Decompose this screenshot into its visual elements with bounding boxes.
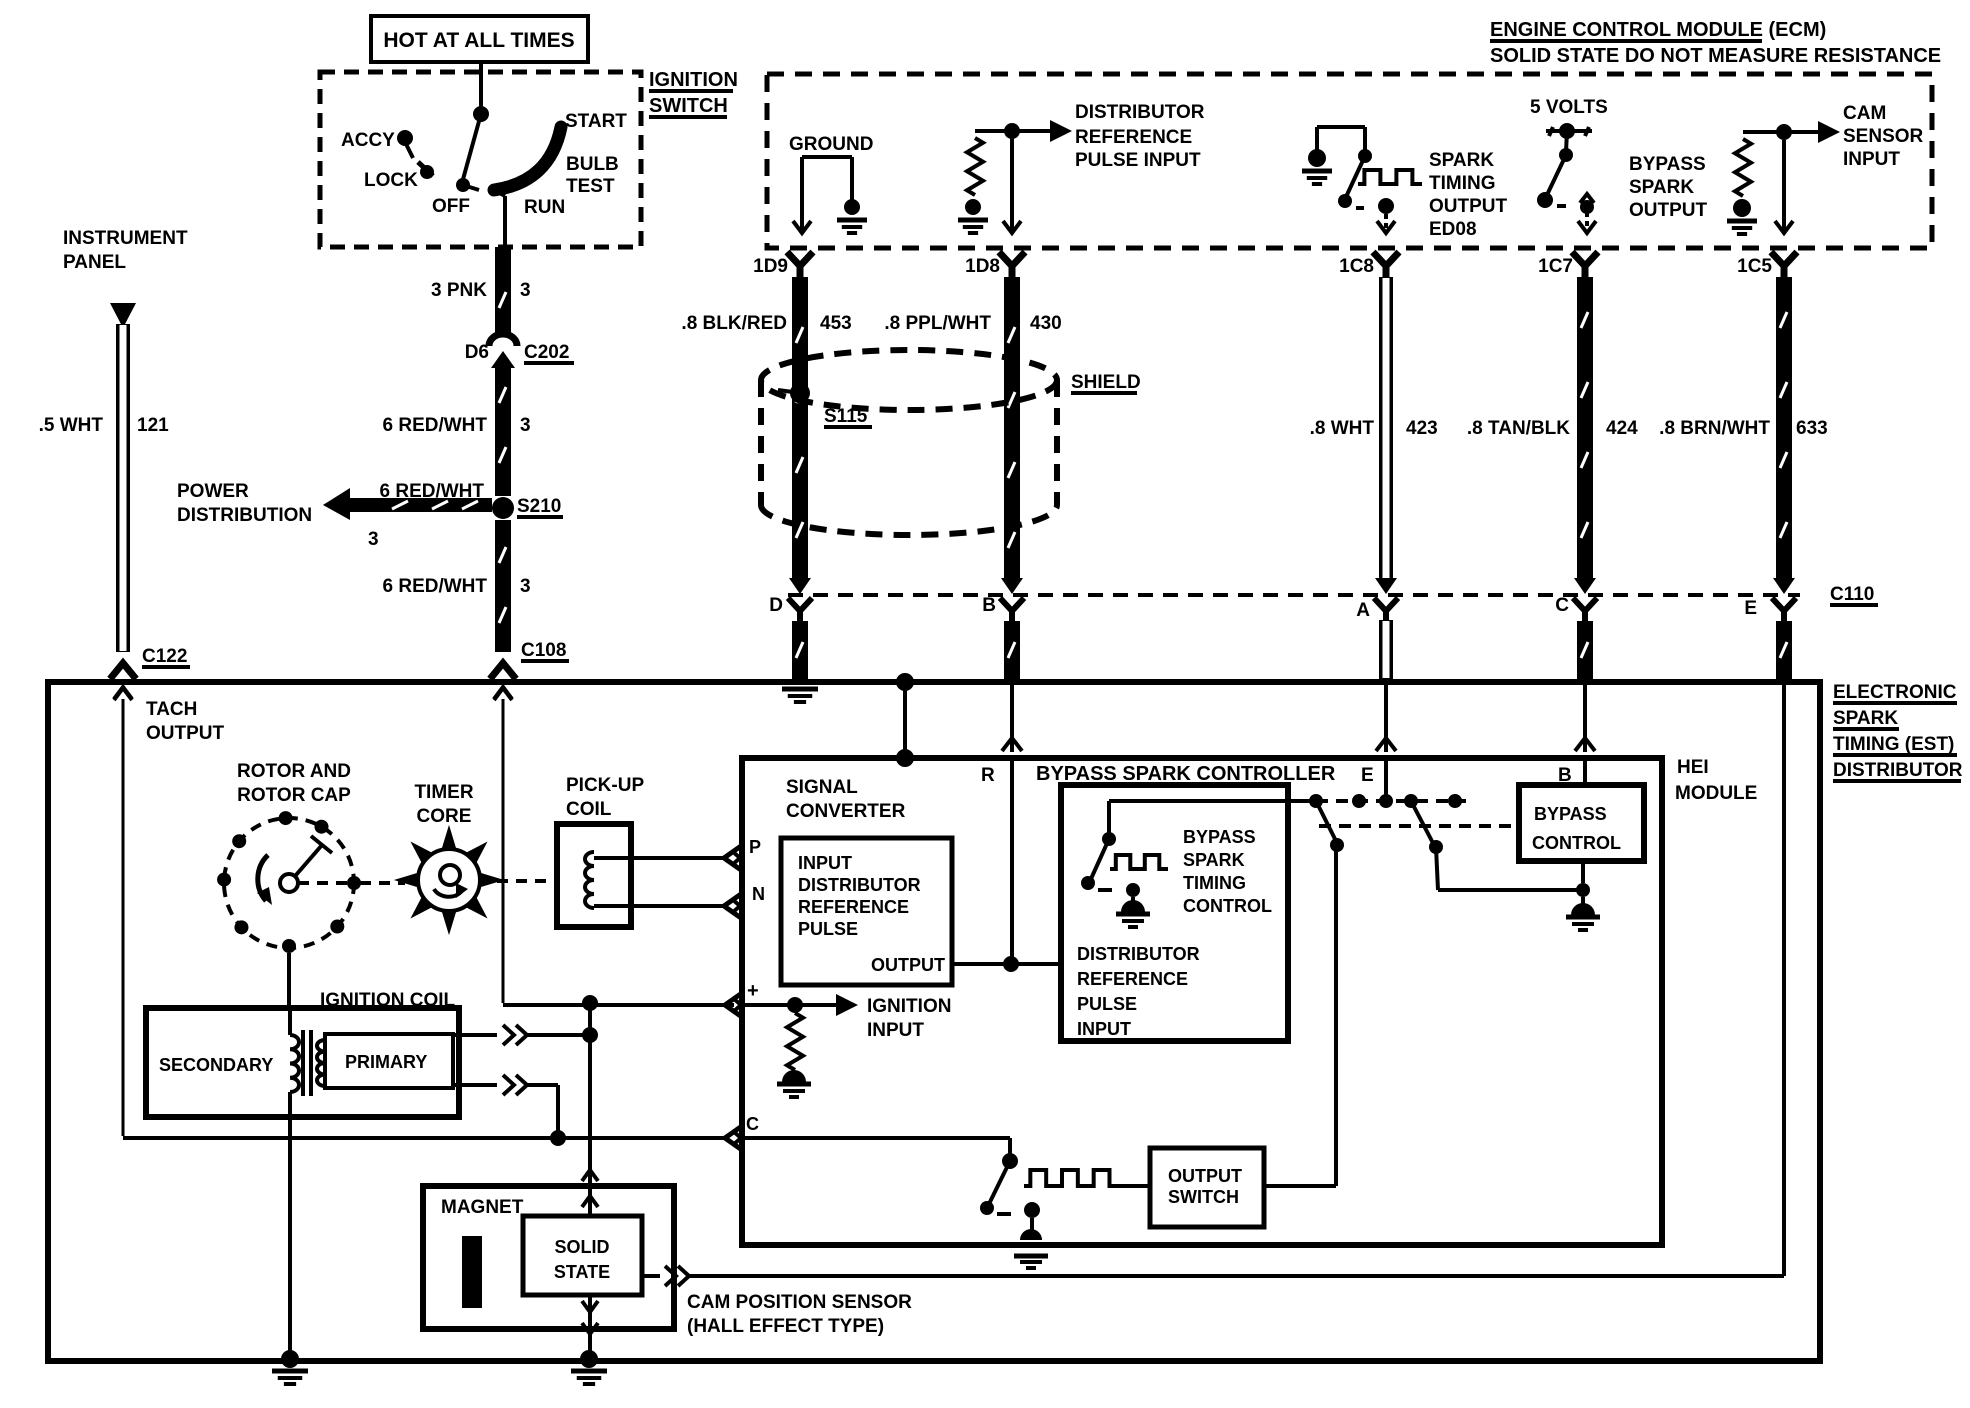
svg-text:6 RED/WHT: 6 RED/WHT xyxy=(383,576,488,597)
svg-text:PULSE: PULSE xyxy=(1077,994,1137,1014)
svg-text:SPARK: SPARK xyxy=(1429,150,1494,171)
svg-text:BYPASS SPARK CONTROLLER: BYPASS SPARK CONTROLLER xyxy=(1036,763,1336,785)
svg-text:INPUT: INPUT xyxy=(1077,1019,1131,1039)
svg-text:.8 WHT: .8 WHT xyxy=(1310,418,1375,439)
svg-text:STATE: STATE xyxy=(554,1262,610,1282)
svg-text:OUTPUT: OUTPUT xyxy=(1429,196,1508,217)
svg-text:ROTOR CAP: ROTOR CAP xyxy=(237,785,351,806)
svg-text:TACH: TACH xyxy=(146,699,197,720)
svg-text:SWITCH: SWITCH xyxy=(649,95,728,117)
svg-text:REFERENCE: REFERENCE xyxy=(798,897,909,917)
svg-text:INPUT: INPUT xyxy=(867,1020,924,1041)
svg-text:GROUND: GROUND xyxy=(789,134,873,155)
svg-text:121: 121 xyxy=(137,415,169,436)
svg-text:430: 430 xyxy=(1030,313,1062,334)
svg-text:453: 453 xyxy=(820,313,852,334)
svg-text:CONTROL: CONTROL xyxy=(1183,896,1272,916)
svg-text:LOCK: LOCK xyxy=(364,170,418,191)
svg-text:OUTPUT: OUTPUT xyxy=(1168,1166,1242,1186)
svg-text:SENSOR: SENSOR xyxy=(1843,126,1924,147)
svg-text:S210: S210 xyxy=(517,496,561,517)
svg-text:IGNITION: IGNITION xyxy=(867,996,951,1017)
svg-text:.8 BLK/RED: .8 BLK/RED xyxy=(681,313,787,334)
svg-text:SHIELD: SHIELD xyxy=(1071,372,1141,393)
svg-text:424: 424 xyxy=(1606,418,1638,439)
svg-text:DISTRIBUTION: DISTRIBUTION xyxy=(177,505,312,526)
svg-text:TIMING: TIMING xyxy=(1183,873,1246,893)
svg-text:3 PNK: 3 PNK xyxy=(431,280,487,301)
svg-text:ACCY: ACCY xyxy=(341,130,395,151)
svg-text:MAGNET: MAGNET xyxy=(441,1197,524,1218)
svg-text:ED08: ED08 xyxy=(1429,219,1477,240)
svg-text:C110: C110 xyxy=(1830,584,1874,605)
svg-text:COIL: COIL xyxy=(566,799,612,820)
svg-text:BULB: BULB xyxy=(566,154,619,175)
svg-text:OUTPUT: OUTPUT xyxy=(871,955,945,975)
svg-text:(HALL EFFECT TYPE): (HALL EFFECT TYPE) xyxy=(687,1316,884,1337)
svg-text:D6: D6 xyxy=(465,342,489,363)
svg-text:3: 3 xyxy=(520,576,531,597)
svg-text:REFERENCE: REFERENCE xyxy=(1077,969,1188,989)
svg-text:PRIMARY: PRIMARY xyxy=(345,1052,427,1072)
svg-text:6 RED/WHT: 6 RED/WHT xyxy=(380,481,485,502)
svg-text:SPARK: SPARK xyxy=(1183,850,1245,870)
svg-text:3: 3 xyxy=(368,529,379,550)
svg-text:3: 3 xyxy=(520,415,531,436)
svg-text:INPUT: INPUT xyxy=(1843,149,1900,170)
svg-text:CAM: CAM xyxy=(1843,103,1886,124)
svg-text:1C7: 1C7 xyxy=(1538,256,1573,277)
svg-text:CORE: CORE xyxy=(417,806,472,827)
svg-text:6 RED/WHT: 6 RED/WHT xyxy=(383,415,488,436)
svg-text:E: E xyxy=(1744,598,1757,619)
svg-text:B: B xyxy=(982,595,996,616)
svg-text:SOLID: SOLID xyxy=(554,1237,609,1257)
svg-text:CAM POSITION SENSOR: CAM POSITION SENSOR xyxy=(687,1292,912,1313)
svg-text:DISTRIBUTOR: DISTRIBUTOR xyxy=(798,875,921,895)
svg-text:OUTPUT: OUTPUT xyxy=(1629,200,1708,221)
svg-text:C202: C202 xyxy=(524,342,569,363)
svg-text:+: + xyxy=(747,980,759,1002)
svg-text:OUTPUT: OUTPUT xyxy=(146,723,225,744)
svg-text:1D9: 1D9 xyxy=(753,256,788,277)
svg-text:DISTRIBUTOR: DISTRIBUTOR xyxy=(1077,944,1200,964)
svg-text:BYPASS: BYPASS xyxy=(1183,827,1256,847)
svg-text:N: N xyxy=(752,884,765,904)
svg-text:423: 423 xyxy=(1406,418,1438,439)
svg-text:CONTROL: CONTROL xyxy=(1532,833,1621,853)
svg-text:SECONDARY: SECONDARY xyxy=(159,1055,273,1075)
svg-text:P: P xyxy=(749,837,761,857)
svg-text:.8 BRN/WHT: .8 BRN/WHT xyxy=(1659,418,1770,439)
svg-text:START: START xyxy=(565,111,627,132)
svg-text:S115: S115 xyxy=(824,406,868,427)
svg-text:IGNITION: IGNITION xyxy=(649,69,738,91)
svg-text:SIGNAL: SIGNAL xyxy=(786,777,858,798)
svg-text:OFF: OFF xyxy=(432,196,470,217)
svg-text:TIMER: TIMER xyxy=(414,782,473,803)
svg-text:633: 633 xyxy=(1796,418,1828,439)
svg-text:E: E xyxy=(1361,765,1374,786)
svg-text:.5 WHT: .5 WHT xyxy=(39,415,104,436)
svg-text:CONVERTER: CONVERTER xyxy=(786,801,906,822)
svg-text:1D8: 1D8 xyxy=(965,256,1000,277)
svg-text:R: R xyxy=(981,765,995,786)
svg-text:PANEL: PANEL xyxy=(63,252,126,273)
svg-text:ENGINE CONTROL MODULE (ECM): ENGINE CONTROL MODULE (ECM) xyxy=(1490,19,1826,41)
svg-text:.8 TAN/BLK: .8 TAN/BLK xyxy=(1467,418,1570,439)
svg-text:1C5: 1C5 xyxy=(1737,256,1772,277)
svg-text:SOLID STATE DO NOT MEASURE RES: SOLID STATE DO NOT MEASURE RESISTANCE xyxy=(1490,45,1941,67)
svg-text:C: C xyxy=(746,1114,759,1134)
svg-text:D: D xyxy=(769,595,783,616)
svg-text:A: A xyxy=(1356,600,1370,621)
svg-text:C122: C122 xyxy=(142,646,187,667)
svg-text:PULSE INPUT: PULSE INPUT xyxy=(1075,150,1201,171)
svg-text:HEI: HEI xyxy=(1677,757,1709,778)
svg-text:.8 PPL/WHT: .8 PPL/WHT xyxy=(884,313,991,334)
svg-text:SPARK: SPARK xyxy=(1629,177,1694,198)
svg-text:RUN: RUN xyxy=(524,197,565,218)
svg-text:SWITCH: SWITCH xyxy=(1168,1187,1239,1207)
svg-text:POWER: POWER xyxy=(177,481,249,502)
svg-text:3: 3 xyxy=(520,280,531,301)
svg-text:INSTRUMENT: INSTRUMENT xyxy=(63,228,188,249)
svg-text:TEST: TEST xyxy=(566,176,615,197)
svg-text:REFERENCE: REFERENCE xyxy=(1075,127,1192,148)
svg-text:DISTRIBUTOR: DISTRIBUTOR xyxy=(1833,760,1963,781)
svg-text:TIMING (EST): TIMING (EST) xyxy=(1833,734,1954,755)
svg-text:ROTOR AND: ROTOR AND xyxy=(237,761,351,782)
svg-text:HOT AT ALL TIMES: HOT AT ALL TIMES xyxy=(383,29,574,52)
svg-text:BYPASS: BYPASS xyxy=(1629,154,1706,175)
svg-text:ELECTRONIC: ELECTRONIC xyxy=(1833,682,1957,703)
svg-text:DISTRIBUTOR: DISTRIBUTOR xyxy=(1075,102,1205,123)
svg-text:TIMING: TIMING xyxy=(1429,173,1496,194)
svg-text:C: C xyxy=(1555,595,1569,616)
svg-text:1C8: 1C8 xyxy=(1339,256,1374,277)
svg-text:PULSE: PULSE xyxy=(798,919,858,939)
svg-text:INPUT: INPUT xyxy=(798,853,852,873)
svg-text:PICK-UP: PICK-UP xyxy=(566,775,644,796)
svg-text:SPARK: SPARK xyxy=(1833,708,1898,729)
svg-text:C108: C108 xyxy=(521,640,566,661)
svg-text:5 VOLTS: 5 VOLTS xyxy=(1530,97,1608,118)
svg-text:MODULE: MODULE xyxy=(1675,783,1757,804)
svg-text:BYPASS: BYPASS xyxy=(1534,804,1607,824)
